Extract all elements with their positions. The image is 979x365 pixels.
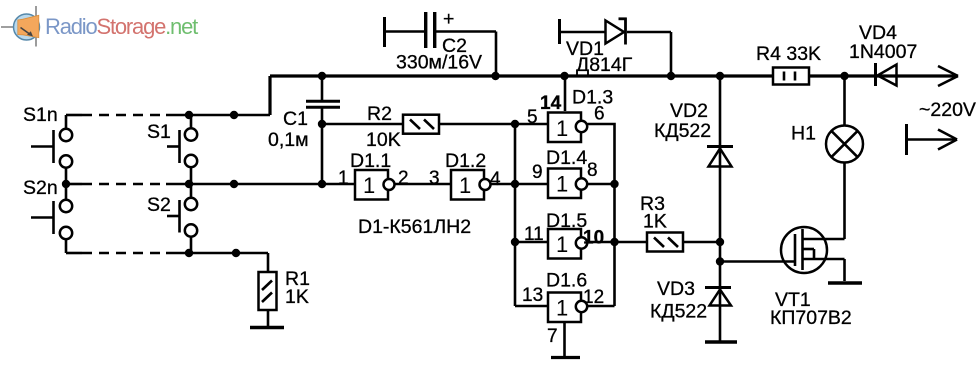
svg-text:1: 1 xyxy=(556,172,568,197)
resistor R2 xyxy=(322,103,548,151)
node gate/VD3 xyxy=(716,257,724,265)
wire right output vertical xyxy=(613,184,616,306)
svg-text:1K: 1K xyxy=(643,211,667,233)
node mid line C1 xyxy=(318,180,326,188)
svg-text:R2: R2 xyxy=(367,103,392,125)
svg-text:S2: S2 xyxy=(147,194,171,216)
node bus/C1 xyxy=(318,72,326,80)
wire IC pin 7 to ground xyxy=(547,321,565,357)
diode VD4 1N4007 xyxy=(849,22,917,86)
ground VD3 xyxy=(705,340,737,344)
ground pin 7 xyxy=(551,356,580,359)
svg-text:11: 11 xyxy=(524,224,544,245)
transistor VT1 КП707В2 MOSFET xyxy=(770,227,852,329)
svg-text:D1-К561ЛН2: D1-К561ЛН2 xyxy=(358,216,471,238)
node D1.5 out xyxy=(610,238,618,246)
wire D1.3 output xyxy=(588,124,615,184)
output arrow top ~220V xyxy=(938,66,958,86)
node dots xyxy=(62,72,849,266)
wire main bus xyxy=(270,74,958,77)
svg-text:6: 6 xyxy=(594,104,605,125)
node D1.4 out xyxy=(610,180,618,188)
node R2/left vert xyxy=(511,120,519,128)
gate D1.6 xyxy=(522,270,604,323)
wire gate line to VT1 xyxy=(720,260,795,263)
svg-text:R4 33K: R4 33K xyxy=(756,43,821,65)
ground VT1 source xyxy=(828,281,862,285)
node bottom mid xyxy=(232,249,240,257)
svg-text:1: 1 xyxy=(556,296,568,321)
wire D1.5 input stub xyxy=(515,241,548,244)
terminal bar VD1 input xyxy=(558,19,561,44)
diode VD1 zener Д814Г xyxy=(561,18,671,77)
svg-text:+: + xyxy=(443,8,454,30)
switch S1 xyxy=(147,115,197,184)
svg-text:D1.1: D1.1 xyxy=(350,150,391,172)
svg-text:КД522: КД522 xyxy=(654,120,711,142)
node bus/pin14 xyxy=(560,72,568,80)
node mid line S1n xyxy=(62,180,70,188)
svg-text:1: 1 xyxy=(338,168,349,189)
diode VD2 КД522 xyxy=(654,100,733,167)
svg-text:S2n: S2n xyxy=(23,177,58,199)
wire D1.5 output to R3 xyxy=(588,241,648,244)
resistor R1 xyxy=(259,253,310,326)
node R3/VD2 xyxy=(716,238,724,246)
svg-text:D1.4: D1.4 xyxy=(546,147,587,169)
svg-text:10: 10 xyxy=(583,228,604,249)
gate D1.4 xyxy=(532,147,598,198)
svg-text:Д814Г: Д814Г xyxy=(576,54,633,76)
gate D1.2 xyxy=(429,150,501,200)
svg-text:КП707В2: КП707В2 xyxy=(770,307,852,329)
diode VD3 КД522 xyxy=(650,278,731,323)
svg-text:3: 3 xyxy=(429,168,440,189)
switch S2n xyxy=(23,177,72,253)
logo text RadioStorage.net xyxy=(45,14,198,39)
svg-text:VD3: VD3 xyxy=(657,278,695,300)
svg-text:S1n: S1n xyxy=(23,104,58,126)
svg-text:1K: 1K xyxy=(285,286,309,308)
svg-text:VD2: VD2 xyxy=(670,100,708,122)
node top line mid xyxy=(230,111,238,119)
capacitor C1 xyxy=(268,76,340,184)
svg-text:7: 7 xyxy=(547,326,558,347)
wire D1.2 out to node and D1.4 input xyxy=(491,183,549,186)
svg-text:~220V: ~220V xyxy=(919,99,976,121)
node top line S1 xyxy=(185,111,193,119)
svg-text:1: 1 xyxy=(363,173,375,198)
svg-text:RadioStorage.net: RadioStorage.net xyxy=(45,14,198,39)
terminal arrow bottom ~220V xyxy=(907,124,958,155)
svg-text:9: 9 xyxy=(532,162,543,183)
svg-text:1: 1 xyxy=(459,173,471,198)
svg-text:D1.6: D1.6 xyxy=(546,270,587,292)
node bottom S1 xyxy=(185,249,193,257)
node mid line S1 xyxy=(185,180,193,188)
wire D1.6 input stub xyxy=(515,305,548,308)
svg-text:13: 13 xyxy=(522,285,543,306)
node D1.2 out xyxy=(511,180,519,188)
wire D1.6 output xyxy=(588,305,615,308)
wire D1.1 out to D1.2 in xyxy=(395,183,452,186)
wire VD2/VD3 vertical xyxy=(719,76,722,342)
terminal bar C2 input xyxy=(383,17,386,47)
ground R1 xyxy=(250,326,284,330)
svg-text:1: 1 xyxy=(556,232,568,257)
gate D1.3 xyxy=(527,87,613,143)
svg-text:8: 8 xyxy=(587,160,598,181)
node bus/C2 xyxy=(491,72,499,80)
svg-text:330м/16V: 330м/16V xyxy=(396,52,482,74)
wire bus left corner down to switch line xyxy=(268,76,271,115)
svg-text:КД522: КД522 xyxy=(650,301,707,323)
gate D1.5 xyxy=(524,210,604,259)
node R2/C1 xyxy=(318,120,326,128)
wire top switch line xyxy=(66,114,270,117)
svg-text:D1.3: D1.3 xyxy=(572,87,613,109)
svg-text:C1: C1 xyxy=(283,108,308,130)
resistor R4 xyxy=(756,43,821,85)
node D1.5 in xyxy=(511,238,519,246)
wire left bus vertical xyxy=(514,124,517,306)
svg-text:2: 2 xyxy=(398,168,409,189)
wire D1.4 output xyxy=(588,183,615,186)
switch S1n xyxy=(23,104,72,184)
logo icon xyxy=(1,6,40,47)
wire bottom switch line xyxy=(66,252,268,255)
svg-text:S1: S1 xyxy=(147,121,171,143)
svg-text:H1: H1 xyxy=(791,123,816,145)
svg-text:4: 4 xyxy=(490,169,501,190)
svg-text:14: 14 xyxy=(540,93,562,114)
gate D1.1 xyxy=(338,150,409,200)
lamp H1 xyxy=(791,76,863,239)
node mid line mid xyxy=(230,180,238,188)
svg-text:1N4007: 1N4007 xyxy=(849,41,917,63)
node bus/H1 xyxy=(840,72,848,80)
node bus/VD1 xyxy=(667,72,675,80)
svg-text:D1.2: D1.2 xyxy=(445,150,486,172)
wire IC pin 14 xyxy=(564,76,567,111)
resistor R3 xyxy=(640,193,720,252)
svg-text:1: 1 xyxy=(556,116,568,141)
svg-text:10K: 10K xyxy=(366,129,401,151)
svg-text:0,1м: 0,1м xyxy=(268,129,309,151)
node bus/VD2 xyxy=(716,72,724,80)
capacitor C2 xyxy=(386,8,496,76)
wire middle switch line xyxy=(66,183,355,186)
switch S2 xyxy=(147,184,197,253)
svg-text:5: 5 xyxy=(527,107,538,128)
